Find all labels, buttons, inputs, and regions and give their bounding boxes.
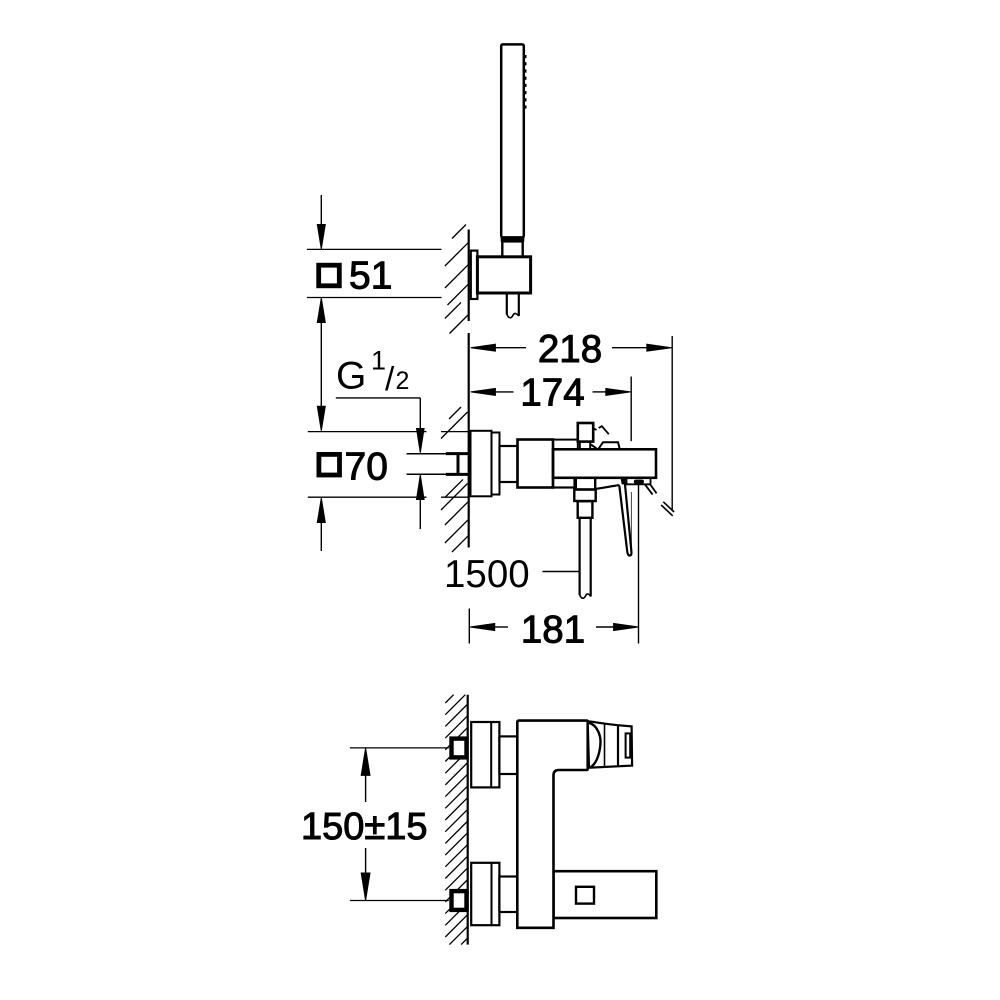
svg-text:/: / bbox=[385, 361, 395, 398]
svg-text:181: 181 bbox=[521, 609, 585, 652]
svg-text:150±15: 150±15 bbox=[301, 806, 428, 848]
svg-text:1500: 1500 bbox=[444, 553, 530, 596]
svg-text:174: 174 bbox=[520, 372, 584, 415]
svg-text:2: 2 bbox=[396, 367, 410, 395]
svg-text:70: 70 bbox=[345, 446, 388, 489]
svg-text:51: 51 bbox=[349, 255, 392, 298]
svg-text:G: G bbox=[336, 354, 366, 397]
svg-text:218: 218 bbox=[538, 328, 602, 371]
svg-text:1: 1 bbox=[371, 346, 386, 376]
